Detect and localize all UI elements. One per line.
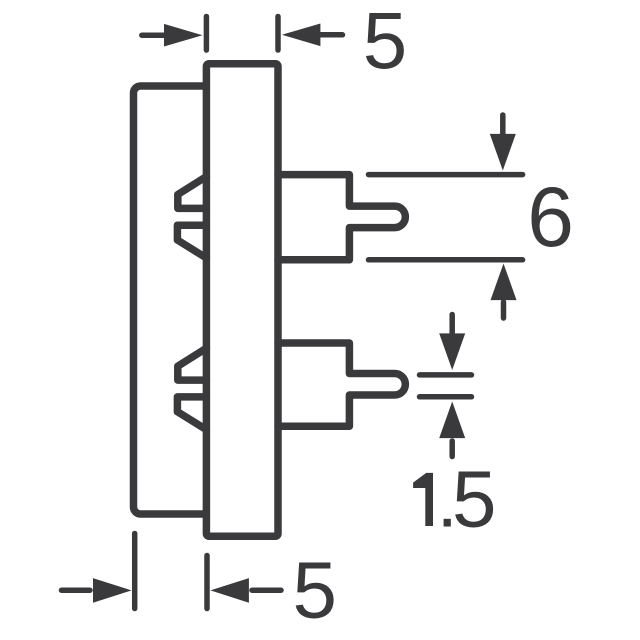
dim top-5: left arrow tail	[142, 32, 168, 38]
latch hook upper, cluster 1	[178, 177, 207, 209]
connector body (rounded housing, left)	[134, 86, 216, 514]
dim 1.5: down arrowhead	[439, 333, 465, 370]
svg-text:5: 5	[363, 0, 408, 85]
svg-text:5: 5	[452, 455, 497, 544]
pin 1 (top terminal)	[278, 175, 405, 260]
dim bottom-5: left arrowhead (points right)	[93, 578, 132, 603]
dim top-5: right arrowhead (points left)	[282, 24, 321, 47]
dim 6: up arrowhead	[491, 264, 517, 301]
dim top-5: extension tick left (flange left)	[204, 17, 210, 51]
latch hook lower, cluster 2	[177, 397, 206, 430]
dim top-5: left arrowhead (points right)	[164, 24, 203, 47]
dim 1.5: line lower	[420, 394, 472, 400]
dim 1.5: line upper	[420, 372, 472, 378]
dim bottom-5: right arrowhead (points left)	[210, 578, 249, 603]
dim 1.5: down-arrow tail	[449, 315, 455, 334]
dim label 1.5: digit 1 (drawn, helvetica style)	[413, 473, 433, 526]
dim 6: extension line lower	[369, 257, 523, 263]
mounting flange plate (vertical)	[206, 64, 278, 536]
svg-text:6: 6	[527, 170, 574, 264]
latch hook lower, cluster 1	[177, 225, 206, 258]
dim 6: down arrowhead	[490, 134, 516, 171]
dim 1.5: up arrowhead	[439, 402, 465, 439]
dim bottom-5: extension tick right (flange left)	[204, 556, 210, 609]
dim top-5: right arrow tail	[318, 32, 343, 38]
dim 1.5: up-arrow tail	[449, 441, 455, 457]
dim 6: down-arrow tail	[500, 115, 506, 134]
dim 6: up-arrow tail	[501, 302, 507, 318]
latch hook upper, cluster 2	[178, 348, 207, 380]
pin 2 (bottom terminal)	[278, 343, 405, 426]
dim top-5: extension tick right (flange right)	[275, 17, 281, 51]
dim bottom-5: left arrow tail	[62, 587, 91, 593]
dim 6: extension line upper	[369, 172, 523, 178]
svg-text:5: 5	[293, 546, 338, 635]
dim label 1.5: decimal point	[444, 519, 451, 527]
dim bottom-5: extension tick left (body left)	[132, 534, 138, 609]
dim bottom-5: right arrow tail	[252, 587, 281, 593]
